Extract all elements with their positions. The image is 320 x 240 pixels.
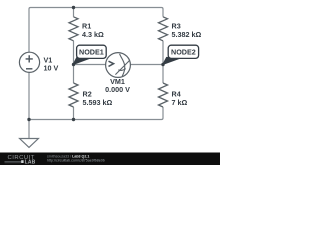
svg-text:5.593 kΩ: 5.593 kΩ [83, 98, 113, 107]
footer bar [0, 153, 220, 166]
junction node A (NODE1) [72, 63, 75, 66]
node flag NODE1 [73, 45, 106, 64]
junction top R1 [72, 6, 75, 9]
resistor R4 [159, 83, 168, 107]
svg-text:0.000 V: 0.000 V [105, 85, 130, 94]
svg-text:7 kΩ: 7 kΩ [172, 98, 188, 107]
svg-text:NODE1: NODE1 [79, 48, 104, 57]
wire V1 bottom stub [28, 72, 30, 119]
svg-text:10 V: 10 V [44, 63, 59, 72]
svg-text:4.3 kΩ: 4.3 kΩ [82, 30, 104, 39]
svg-text:NODE2: NODE2 [171, 48, 196, 57]
resistor R2 [69, 83, 78, 107]
wire middle column R1 bottom to R2 top [73, 41, 75, 83]
wire R1 top stub [73, 8, 75, 17]
label R3 value [172, 22, 202, 39]
svg-text:5.382 kΩ: 5.382 kΩ [172, 30, 202, 39]
label V1 value [44, 56, 59, 73]
label R1 value [82, 22, 104, 39]
junction node B (NODE2) [161, 63, 164, 66]
wire ground stub [28, 120, 30, 139]
voltage source V1 [19, 52, 39, 72]
svg-text:http://circuitlab.com/c/875ae9: http://circuitlab.com/c/875ae9fb8e0b [47, 158, 105, 162]
voltmeter VM1 [106, 53, 131, 78]
wire top rail with left column [29, 8, 163, 53]
label R2 value [83, 90, 113, 107]
footer logo CircuitLab [5, 155, 36, 165]
node flag NODE2 [163, 45, 199, 64]
resistor R1 [69, 17, 78, 41]
junction bottom R2 [72, 118, 75, 121]
ground [20, 139, 39, 148]
wire NODE1 junction to VM1 left [74, 64, 106, 66]
wire bottom rail with right column [29, 107, 163, 120]
svg-text:LAB: LAB [25, 160, 36, 165]
junction bottom left [27, 118, 30, 121]
label VM1 value [105, 77, 130, 94]
wire VM1 right to NODE2 junction [130, 64, 163, 66]
wire R3 bottom to R4 top [162, 41, 164, 83]
wire R2 bottom stub [73, 107, 75, 120]
label R4 value [172, 90, 188, 107]
resistor R3 [159, 17, 168, 41]
